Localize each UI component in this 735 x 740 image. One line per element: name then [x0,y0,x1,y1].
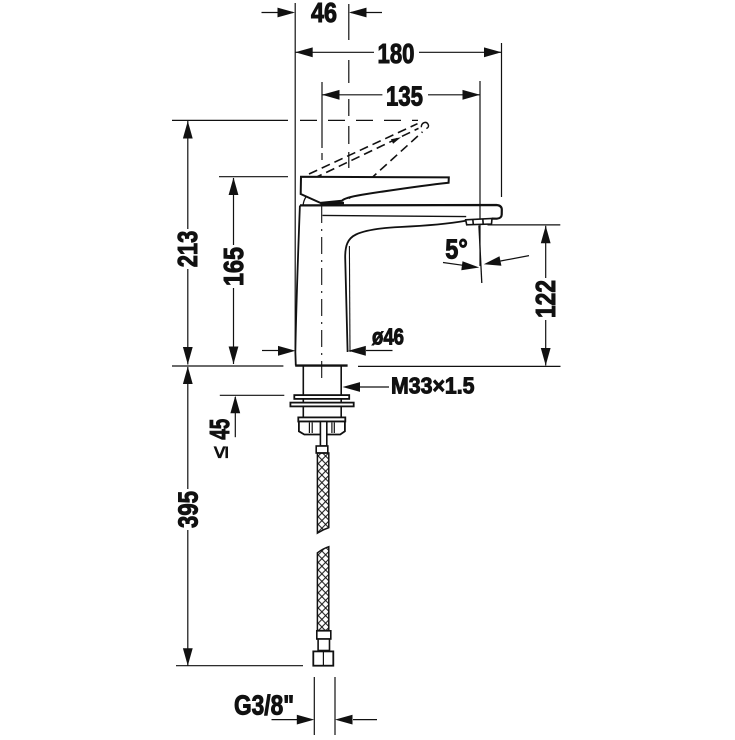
dimension o46 [262,324,404,356]
svg-text:122: 122 [530,280,561,318]
reference line 395 bottom [176,665,303,667]
extension line left of base (x=295) [294,3,296,352]
dimension 122 [530,226,561,366]
braided hose lower segment [317,547,328,631]
svg-text:G3/8": G3/8" [234,690,294,721]
svg-text:5°: 5° [445,234,468,265]
reference line 122 top (aerator level) [488,224,561,226]
svg-text:M33×1.5: M33×1.5 [391,373,475,399]
base bottom thick line [295,364,347,366]
washer 2 [290,403,353,407]
dimension 213 [172,121,203,365]
braided hose upper segment [317,453,328,533]
mounting nut [298,417,345,434]
extension line right of base dashed (x=348.8) [348,4,350,168]
dimension G3/8 [234,690,377,725]
dimension 180 [295,38,501,197]
hose end small collar [318,639,329,651]
svg-text:135: 135 [386,81,423,112]
svg-text:213: 213 [172,231,203,268]
hose collar [316,446,328,453]
dimension less-equal 45 [204,396,240,459]
water stream line (5 deg) [479,226,482,284]
dimension 5 deg [443,234,529,271]
cap shadow line under lever [303,197,344,205]
dimension 135 [322,81,480,267]
hose tail tube [320,422,326,447]
dimension 46 (top) [262,0,383,28]
reference line 45 (y=395.3) [220,394,284,396]
handle lever (solid, closed) [301,177,449,203]
handle lever raised (dashed) [309,122,428,198]
deck line [172,365,561,367]
svg-text:395: 395 [172,491,203,528]
svg-text:45: 45 [204,419,235,440]
aerator [466,219,492,225]
centerline of faucet (dash-dot) [321,206,323,378]
reference line 165 top (y=176.7) [219,176,288,178]
dimension 395 [172,367,203,666]
faucet body and spout outline [295,205,501,366]
svg-text:165: 165 [218,247,249,286]
threaded shank [303,367,341,418]
hose end collar [317,631,331,639]
svg-text:46: 46 [311,0,337,28]
washer 1 [294,395,349,399]
svg-text:≤: ≤ [208,446,233,458]
svg-text:ø46: ø46 [372,324,404,350]
hose end hex nut G3/8 [313,651,333,665]
reference line 213 top (y=120.4) [172,119,418,121]
svg-text:180: 180 [378,38,415,69]
dimension 165 [218,178,249,365]
dimension M33x1.5 [343,373,475,399]
G3/8 extension lines [314,677,335,735]
